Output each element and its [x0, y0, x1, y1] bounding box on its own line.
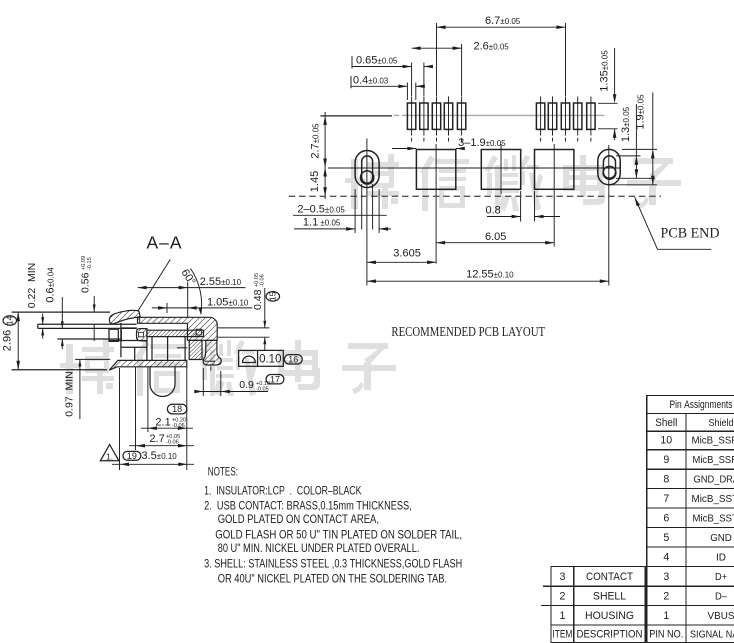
watermark row 1: light gray Chinese text 博信微电子 — [345, 154, 399, 209]
svg-text:MicB_SSTX+: MicB_SSTX+ — [692, 494, 734, 505]
svg-text:GOLD FLASH OR 50 U" TIN PLATED: GOLD FLASH OR 50 U" TIN PLATED ON SOLDER… — [215, 527, 462, 541]
dimension 0.9 (17) foot width — [196, 391, 269, 393]
shell back S-bend wall and solder foot (hatched) — [203, 340, 221, 365]
recommended PCB layout view — [289, 15, 720, 339]
shell top wall (hatched) — [138, 317, 218, 340]
dimension 0.65±0.05 (pad pitch) — [352, 66, 412, 68]
svg-text:1.45: 1.45 — [309, 171, 321, 192]
svg-text:SHELL: SHELL — [593, 591, 626, 603]
svg-text:MicB_SSRX+: MicB_SSRX+ — [692, 436, 734, 447]
contact hook (left end, hatched) — [137, 329, 148, 341]
dimension 0.48 (15) shell thickness — [218, 327, 270, 329]
svg-text:ITEM: ITEM — [552, 628, 572, 640]
svg-text:3. SHELL: STAINLESS STEEL ,0.3: 3. SHELL: STAINLESS STEEL ,0.3 THICKNESS… — [204, 557, 462, 571]
dimension 0.4±0.03 (pad width) — [351, 85, 407, 87]
svg-text:4: 4 — [663, 551, 669, 563]
svg-text:2. USB CONTACT: BRASS,0.15mm: 2. USB CONTACT: BRASS,0.15mm THICKNESS, — [204, 499, 412, 513]
wire: bottom reference line — [12, 369, 107, 371]
svg-text:GOLD PLATED ON CONTACT AREA,: GOLD PLATED ON CONTACT AREA, — [218, 512, 379, 526]
watermark row 2: light gray Chinese text 博信微电子 — [60, 339, 114, 394]
svg-text:17: 17 — [270, 374, 280, 384]
svg-text:D–: D– — [715, 592, 727, 603]
dimension 0.22 MIN — [42, 314, 44, 325]
dimension 6.7±0.05 (pad group centers) — [437, 26, 566, 28]
dimension 0.56 with tolerance — [93, 296, 95, 312]
solder foot underline — [205, 360, 216, 362]
svg-text:18: 18 — [172, 404, 182, 414]
svg-text:0.10: 0.10 — [259, 354, 281, 366]
three 1.9mm square pads — [416, 150, 455, 190]
svg-text:3: 3 — [559, 571, 565, 583]
svg-text:7: 7 — [663, 493, 669, 505]
svg-text:-0.15: -0.15 — [87, 257, 93, 270]
svg-text:5: 5 — [663, 532, 669, 544]
svg-text:OR 40U" NICKEL PLATED ON THE S: OR 40U" NICKEL PLATED ON THE SOLDERING T… — [218, 572, 447, 586]
svg-text:1.: 1. — [106, 452, 113, 462]
svg-text:2.96: 2.96 — [2, 330, 14, 351]
svg-text:16: 16 — [288, 354, 298, 364]
PCB END label and leader — [635, 197, 712, 249]
svg-text:3.605: 3.605 — [393, 248, 421, 260]
wire: top reference line — [12, 311, 110, 313]
svg-text:2.7: 2.7 — [149, 433, 164, 445]
svg-text:2: 2 — [663, 591, 669, 603]
svg-text:GND: GND — [710, 533, 732, 544]
svg-text:14: 14 — [5, 316, 15, 326]
svg-text:19: 19 — [127, 451, 137, 461]
svg-text:0.4±0.03: 0.4±0.03 — [353, 75, 389, 87]
item/description table — [541, 567, 645, 643]
svg-text:0.22 MIN: 0.22 MIN — [26, 263, 38, 309]
svg-text:10: 10 — [660, 435, 672, 447]
contact strip (hatched) — [147, 330, 204, 336]
dimension 1.05±0.10 — [152, 307, 253, 309]
contact pin (two lines) — [38, 323, 137, 325]
section A-A view — [2, 232, 303, 470]
revision triangle 1 — [100, 445, 119, 461]
svg-text:NOTES:: NOTES: — [208, 464, 238, 478]
svg-text:MicB_SSTX–: MicB_SSTX– — [693, 513, 734, 524]
pads: left group of 5 SMT pads — [407, 103, 415, 129]
svg-text:6.05: 6.05 — [485, 231, 506, 243]
svg-text:2.6±0.05: 2.6±0.05 — [474, 40, 510, 52]
svg-text:0.56: 0.56 — [80, 272, 92, 293]
svg-text:-0.06: -0.06 — [260, 274, 266, 287]
svg-text:D+: D+ — [715, 572, 727, 583]
dimension 0.6±0.04 — [61, 297, 63, 328]
svg-text:Pin Assignments: Pin Assignments — [670, 399, 733, 411]
notes block — [204, 464, 462, 585]
svg-text:Shell: Shell — [655, 417, 677, 429]
svg-text:0.48: 0.48 — [252, 289, 264, 310]
dimension 2.55±0.10 — [138, 287, 246, 289]
dimension 2.7±0.05 — [324, 112, 326, 168]
wire: gray mating reference line through pads — [402, 114, 605, 116]
svg-text:6.7±0.05: 6.7±0.05 — [485, 15, 521, 27]
svg-text:2.7±0.05: 2.7±0.05 — [310, 123, 322, 159]
pads: right group of 5 SMT pads — [536, 103, 544, 129]
svg-text:1.05±0.10: 1.05±0.10 — [207, 296, 249, 308]
svg-text:-0.06: -0.06 — [166, 440, 179, 446]
insulator outlines — [120, 323, 122, 357]
svg-text:0.6±0.04: 0.6±0.04 — [45, 267, 57, 303]
center post below with U slot — [119, 368, 121, 470]
section cutting 60 deg line and arc — [138, 259, 171, 311]
pin assignments table — [647, 396, 734, 643]
svg-text:2.1: 2.1 — [155, 416, 170, 428]
svg-text:GND_DRAIN: GND_DRAIN — [694, 475, 734, 486]
svg-text:3.5±0.10: 3.5±0.10 — [142, 450, 178, 462]
svg-text:-0.05: -0.05 — [256, 386, 269, 392]
svg-text:DESCRIPTION: DESCRIPTION — [577, 628, 643, 640]
wire: black reference line left of pads — [320, 115, 392, 117]
right oval centerline — [608, 145, 610, 286]
svg-text:RECOMMENDED PCB LAYOUT: RECOMMENDED PCB LAYOUT — [391, 324, 545, 339]
dimension 3-1.9±0.05 (square width) — [392, 148, 416, 150]
bottom shell wall (hatched) with slanted tip — [109, 360, 187, 370]
horizontal centerline — [328, 167, 621, 169]
svg-text:CONTACT: CONTACT — [586, 571, 633, 583]
right oval mounting hole — [598, 149, 620, 184]
svg-text:PIN NO.: PIN NO. — [649, 628, 683, 640]
svg-text:1. INSULATOR:LCP . COLOR–BL: 1. INSULATOR:LCP . COLOR–BLACK — [204, 483, 361, 497]
dashed PCB edge line — [289, 195, 661, 197]
svg-text:SIGNAL NAME: SIGNAL NAME — [690, 629, 734, 640]
svg-text:0.65±0.05: 0.65±0.05 — [356, 55, 398, 67]
svg-text:1: 1 — [663, 610, 669, 622]
svg-text:HOUSING: HOUSING — [585, 610, 634, 622]
dimension 1.9±0.05 (oval) — [622, 148, 657, 150]
label (18) — [167, 404, 186, 414]
svg-text:15: 15 — [268, 291, 278, 301]
svg-text:9: 9 — [663, 454, 669, 466]
svg-text:2–0.5±0.05: 2–0.5±0.05 — [297, 203, 345, 215]
dimension 1.3±0.05 (slot) — [616, 155, 641, 157]
svg-text:12.55±0.10: 12.55±0.10 — [466, 268, 514, 280]
svg-text:0.97 MIN: 0.97 MIN — [64, 371, 76, 417]
svg-text:0.8: 0.8 — [486, 205, 501, 217]
dimension 2.96 (14) overall height — [17, 312, 19, 370]
svg-text:6: 6 — [663, 512, 669, 524]
svg-text:VBUS: VBUS — [708, 611, 734, 622]
svg-text:Shield: Shield — [709, 418, 734, 429]
svg-text:A–A: A–A — [147, 232, 183, 252]
svg-text:1: 1 — [559, 610, 565, 622]
svg-text:8: 8 — [663, 474, 669, 486]
svg-text:MicB_SSRX–: MicB_SSRX– — [693, 455, 734, 466]
svg-text:2.55±0.10: 2.55±0.10 — [200, 276, 242, 288]
dimension 2.6±0.05 — [412, 47, 462, 49]
left oval centerline — [366, 139, 368, 286]
svg-text:1.9±0.05: 1.9±0.05 — [635, 94, 647, 130]
svg-text:3–1.9±0.05: 3–1.9±0.05 — [458, 137, 506, 149]
white notch in shell fold — [196, 329, 201, 335]
svg-text:ID: ID — [716, 552, 726, 563]
insulator block (hatched) — [189, 340, 202, 359]
svg-text:1.35±0.05: 1.35±0.05 — [599, 50, 611, 92]
dimension 0.97 MIN — [75, 358, 110, 360]
label (19) and dimension 3.5±0.10 — [123, 451, 141, 461]
svg-text:1.3±0.05: 1.3±0.05 — [620, 106, 632, 142]
svg-text:1.1 ±0.05: 1.1 ±0.05 — [303, 217, 341, 229]
insulator front tab — [109, 329, 118, 341]
flatness feature control frame 0.10 (16) — [239, 350, 284, 366]
svg-text:0.9: 0.9 — [239, 379, 254, 391]
svg-text:2: 2 — [559, 591, 565, 603]
shell curl tab (hatched) — [109, 310, 140, 324]
dimension 1.45 — [324, 168, 326, 200]
dimension 1.35±0.05 (pad length) — [598, 102, 618, 104]
svg-text:PCB END: PCB END — [661, 226, 720, 242]
svg-text:80 U" MIN. NICKEL UNDER PLATED: 80 U" MIN. NICKEL UNDER PLATED OVERALL. — [218, 541, 420, 555]
wire: lower contact line — [57, 338, 121, 340]
extension lines above pads — [411, 63, 413, 97]
left oval mounting hole — [355, 151, 379, 188]
svg-text:3: 3 — [663, 571, 669, 583]
